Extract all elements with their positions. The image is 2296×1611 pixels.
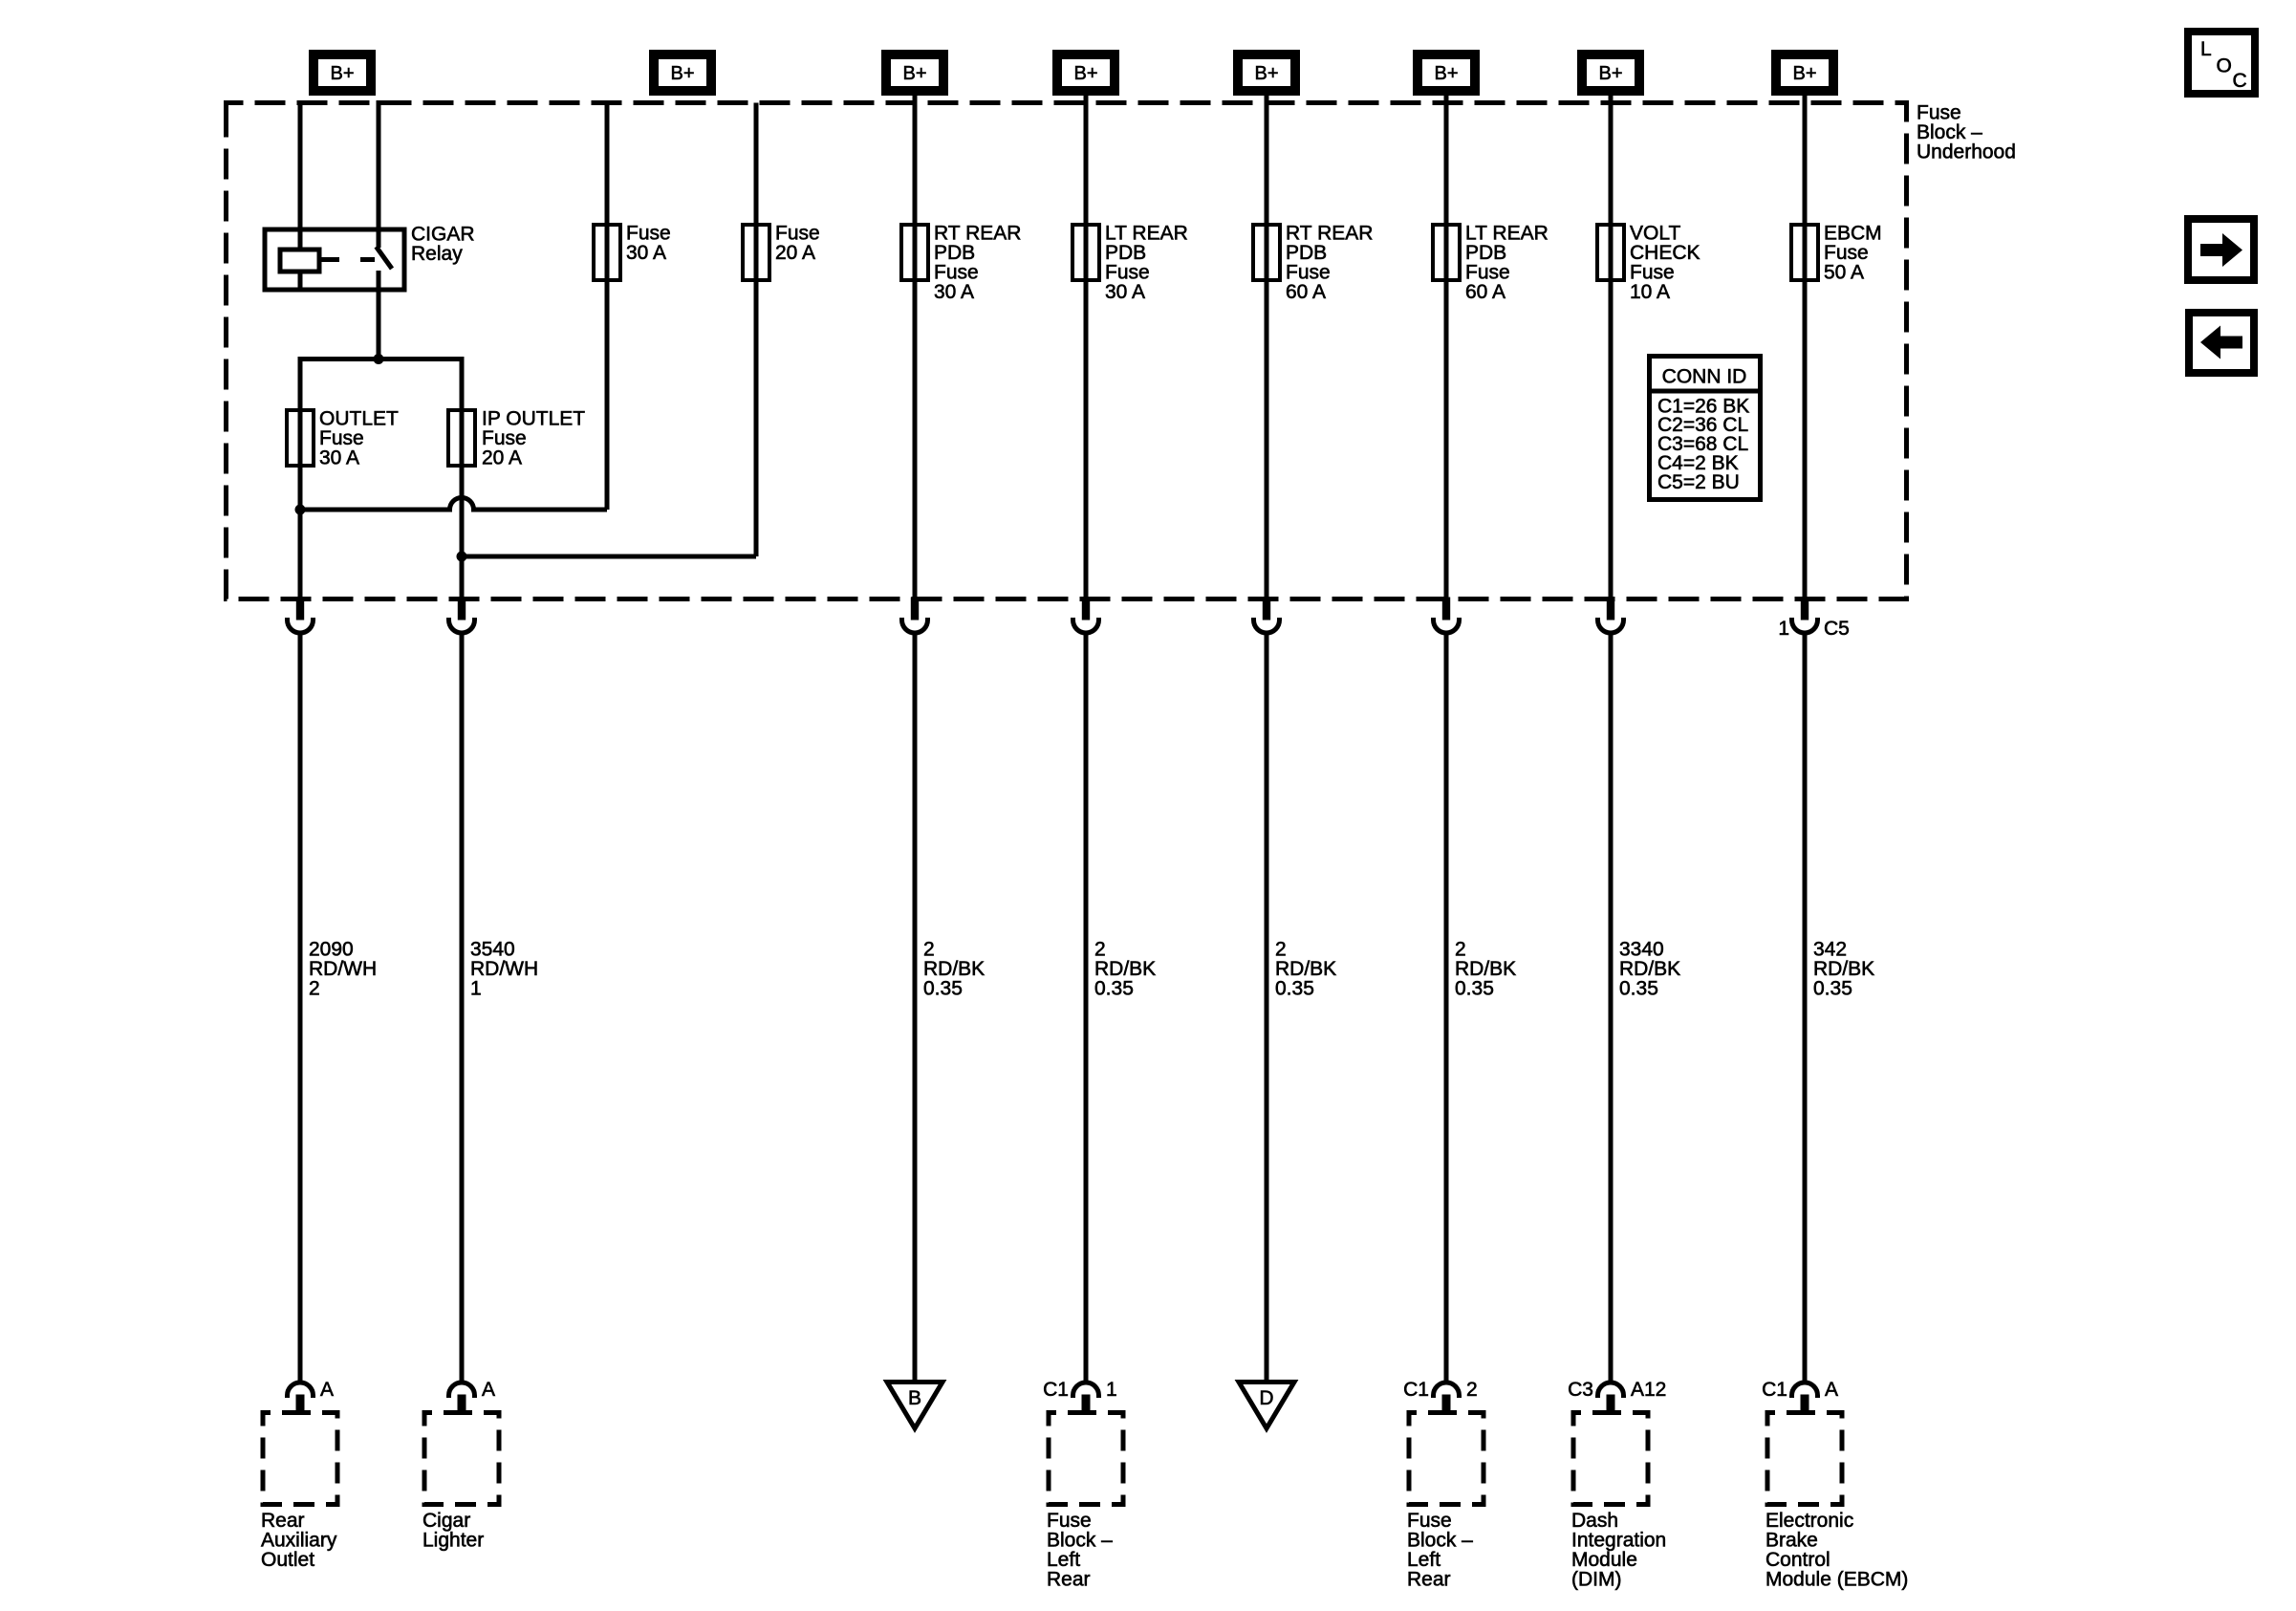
svg-text:C1: C1 bbox=[1403, 1379, 1429, 1401]
svg-text:B+: B+ bbox=[902, 63, 926, 84]
node: relay output junction bbox=[374, 354, 384, 364]
svg-text:Lighter: Lighter bbox=[422, 1529, 484, 1551]
svg-text:Outlet: Outlet bbox=[261, 1549, 314, 1571]
wire: through IP OUTLET fuse to block exit bbox=[460, 410, 465, 599]
svg-text:D: D bbox=[1259, 1387, 1273, 1409]
wire: Fuse 30 A column bbox=[605, 103, 610, 511]
wire: B+ to LT REAR PDB Fuse 30 A and block exit bbox=[1084, 96, 1089, 599]
nav box left arrow bbox=[2189, 313, 2254, 373]
svg-text:C3: C3 bbox=[1568, 1379, 1593, 1401]
svg-text:CONN ID: CONN ID bbox=[1662, 366, 1747, 388]
node: IP OUTLET output junction bbox=[457, 552, 467, 562]
svg-text:B: B bbox=[908, 1387, 921, 1409]
relay coil bbox=[280, 250, 319, 272]
svg-text:A: A bbox=[482, 1379, 495, 1401]
svg-text:A: A bbox=[320, 1379, 334, 1401]
relay mechanical link dashes bbox=[319, 257, 375, 262]
relay CIGAR Relay body bbox=[265, 229, 404, 290]
svg-text:B+: B+ bbox=[1598, 63, 1622, 84]
wire: B+ to EBCM Fuse 50 A and block exit bbox=[1803, 96, 1808, 599]
fuse Fuse 20 A bbox=[743, 225, 769, 280]
LOC reference box bbox=[2188, 32, 2255, 94]
svg-text:20 A: 20 A bbox=[775, 242, 815, 264]
svg-text:C: C bbox=[2233, 70, 2247, 92]
fuse IP OUTLET Fuse 20 A bbox=[448, 410, 475, 466]
fuse RT REAR PDB Fuse 60 A bbox=[1253, 225, 1280, 280]
svg-text:0.35: 0.35 bbox=[1813, 977, 1852, 999]
svg-text:B+: B+ bbox=[1254, 63, 1278, 84]
wire: B+ to RT REAR PDB Fuse 30 A and block exit bbox=[913, 96, 918, 599]
component box: Dash Integration Module (DIM) bbox=[1573, 1413, 1648, 1505]
svg-text:30 A: 30 A bbox=[626, 242, 666, 264]
svg-text:0.35: 0.35 bbox=[1275, 977, 1314, 999]
svg-text:B+: B+ bbox=[670, 63, 694, 84]
fuse Fuse 30 A bbox=[594, 225, 620, 280]
svg-text:0.35: 0.35 bbox=[1094, 977, 1134, 999]
off-page connector triangle B bbox=[887, 1382, 942, 1429]
connector: Cigar Lighter input bbox=[449, 1382, 475, 1413]
svg-text:C5=2 BU: C5=2 BU bbox=[1657, 471, 1740, 493]
wire: B+ to RT REAR PDB Fuse 60 A and block exit bbox=[1265, 96, 1269, 599]
component box: Fuse Block – Left Rear bbox=[1409, 1413, 1484, 1505]
connector: fuse block exit at x=483 bbox=[449, 598, 475, 634]
power symbol B+ terminal 2 bbox=[649, 50, 716, 96]
svg-text:Rear: Rear bbox=[1047, 1568, 1091, 1590]
fuse VOLT CHECK Fuse 10 A bbox=[1597, 225, 1624, 280]
component box: Rear Auxiliary Outlet bbox=[263, 1413, 337, 1505]
svg-text:C5: C5 bbox=[1824, 618, 1850, 640]
power symbol B+ terminal 1 bbox=[309, 50, 376, 96]
off-page connector triangle D bbox=[1239, 1382, 1294, 1429]
svg-text:20 A: 20 A bbox=[482, 446, 522, 468]
wire: through OUTLET fuse to block exit bbox=[298, 410, 303, 599]
fuse LT REAR PDB Fuse 30 A bbox=[1072, 225, 1099, 280]
wire: B+ to LT REAR PDB Fuse 60 A and block exit bbox=[1444, 96, 1449, 599]
connector: fuse block exit at x=1513 bbox=[1434, 598, 1460, 634]
power symbol B+ terminal 7 bbox=[1577, 50, 1644, 96]
svg-text:A12: A12 bbox=[1631, 1379, 1666, 1401]
wire: relay output down to node bbox=[377, 290, 381, 359]
connector: fuse block exit at x=1888 bbox=[1792, 598, 1818, 634]
svg-text:0.35: 0.35 bbox=[1455, 977, 1494, 999]
svg-text:Relay: Relay bbox=[411, 243, 463, 265]
connector: fuse block exit at x=314 bbox=[288, 598, 314, 634]
power symbol B+ terminal 6 bbox=[1413, 50, 1480, 96]
svg-text:0.35: 0.35 bbox=[1619, 977, 1658, 999]
svg-text:C1: C1 bbox=[1762, 1379, 1787, 1401]
fuse block - underhood dashed boundary bbox=[227, 103, 1907, 599]
svg-text:L: L bbox=[2200, 38, 2212, 60]
svg-text:1: 1 bbox=[470, 977, 482, 999]
wire: circuit 342 RD/BK vertical run bbox=[1803, 635, 1808, 1383]
svg-text:(DIM): (DIM) bbox=[1571, 1568, 1621, 1590]
svg-text:0.35: 0.35 bbox=[923, 977, 963, 999]
wire: B+1 to CIGAR relay switch contact bbox=[377, 100, 381, 248]
svg-text:60 A: 60 A bbox=[1465, 281, 1505, 303]
connector: Fuse Block – Left Rear input bbox=[1073, 1382, 1099, 1413]
power symbol B+ terminal 4 bbox=[1052, 50, 1119, 96]
svg-text:O: O bbox=[2217, 55, 2232, 77]
fuse LT REAR PDB Fuse 60 A bbox=[1433, 225, 1460, 280]
connector: Fuse Block – Left Rear input bbox=[1434, 1382, 1460, 1413]
connector: fuse block exit at x=1325 bbox=[1254, 598, 1280, 634]
svg-text:C1: C1 bbox=[1043, 1379, 1069, 1401]
svg-text:30 A: 30 A bbox=[1105, 281, 1145, 303]
svg-text:50 A: 50 A bbox=[1824, 261, 1864, 283]
svg-text:B+: B+ bbox=[330, 63, 354, 84]
svg-text:2: 2 bbox=[309, 977, 320, 999]
wire: circuit 2 RD/BK vertical run bbox=[1444, 635, 1449, 1383]
connector: Electronic Brake Control Module (EBCM) input bbox=[1792, 1382, 1818, 1413]
power symbol B+ terminal 5 bbox=[1233, 50, 1300, 96]
wire: circuit 2 RD/BK vertical run bbox=[1265, 635, 1269, 1381]
power symbol B+ terminal 3 bbox=[881, 50, 948, 96]
nav box right arrow bbox=[2188, 219, 2254, 280]
svg-text:B+: B+ bbox=[1792, 63, 1816, 84]
svg-text:B+: B+ bbox=[1434, 63, 1458, 84]
CONN ID table bbox=[1650, 357, 1761, 500]
svg-text:Rear: Rear bbox=[1407, 1568, 1451, 1590]
svg-text:1: 1 bbox=[1106, 1379, 1117, 1401]
svg-text:2: 2 bbox=[1466, 1379, 1478, 1401]
wire: Fuse 20 A output to IP OUTLET node bbox=[462, 555, 756, 559]
svg-text:1: 1 bbox=[1778, 618, 1789, 640]
node: OUTLET output junction bbox=[295, 505, 306, 515]
wire: Fuse 20 A column bbox=[754, 103, 759, 557]
fuse EBCM Fuse 50 A bbox=[1791, 225, 1818, 280]
svg-text:30 A: 30 A bbox=[319, 446, 359, 468]
wire: B+1 to CIGAR relay coil bbox=[298, 100, 303, 250]
relay switch blade bbox=[377, 247, 393, 269]
wire: Fuse 30 A output to OUTLET node (with hop) bbox=[300, 498, 607, 511]
component box: Fuse Block – Left Rear bbox=[1049, 1413, 1123, 1505]
connector: fuse block exit at x=957 bbox=[902, 598, 928, 634]
svg-text:B+: B+ bbox=[1073, 63, 1097, 84]
component box: Electronic Brake Control Module (EBCM) bbox=[1767, 1413, 1842, 1505]
power symbol B+ terminal 8 bbox=[1771, 50, 1838, 96]
wire: B+ to VOLT CHECK Fuse 10 A and block exit bbox=[1609, 96, 1614, 599]
svg-text:Module (EBCM): Module (EBCM) bbox=[1765, 1568, 1908, 1590]
connector: fuse block exit at x=1685 bbox=[1598, 598, 1624, 634]
wire: relay output bus (horizontal) bbox=[300, 359, 462, 411]
wire: circuit 2090 RD/WH vertical run bbox=[298, 635, 303, 1383]
connector: Dash Integration Module (DIM) input bbox=[1598, 1382, 1624, 1413]
fuse RT REAR PDB Fuse 30 A bbox=[901, 225, 928, 280]
wire: circuit 2 RD/BK vertical run bbox=[913, 635, 918, 1381]
wire: circuit 3340 RD/BK vertical run bbox=[1609, 635, 1614, 1383]
wire: coil bottom stub bbox=[298, 272, 303, 290]
svg-text:10 A: 10 A bbox=[1630, 281, 1670, 303]
component box: Cigar Lighter bbox=[424, 1413, 499, 1505]
wire: circuit 2 RD/BK vertical run bbox=[1084, 635, 1089, 1383]
connector: fuse block exit at x=1136 bbox=[1073, 598, 1099, 634]
wire: circuit 3540 RD/WH vertical run bbox=[460, 635, 465, 1383]
wire: relay switch lower contact stub bbox=[377, 271, 381, 290]
svg-text:Underhood: Underhood bbox=[1917, 141, 2016, 163]
svg-text:60 A: 60 A bbox=[1286, 281, 1326, 303]
fuse OUTLET Fuse 30 A bbox=[287, 410, 314, 466]
svg-text:A: A bbox=[1825, 1379, 1838, 1401]
connector: Rear Auxiliary Outlet input bbox=[288, 1382, 314, 1413]
svg-text:30 A: 30 A bbox=[934, 281, 974, 303]
